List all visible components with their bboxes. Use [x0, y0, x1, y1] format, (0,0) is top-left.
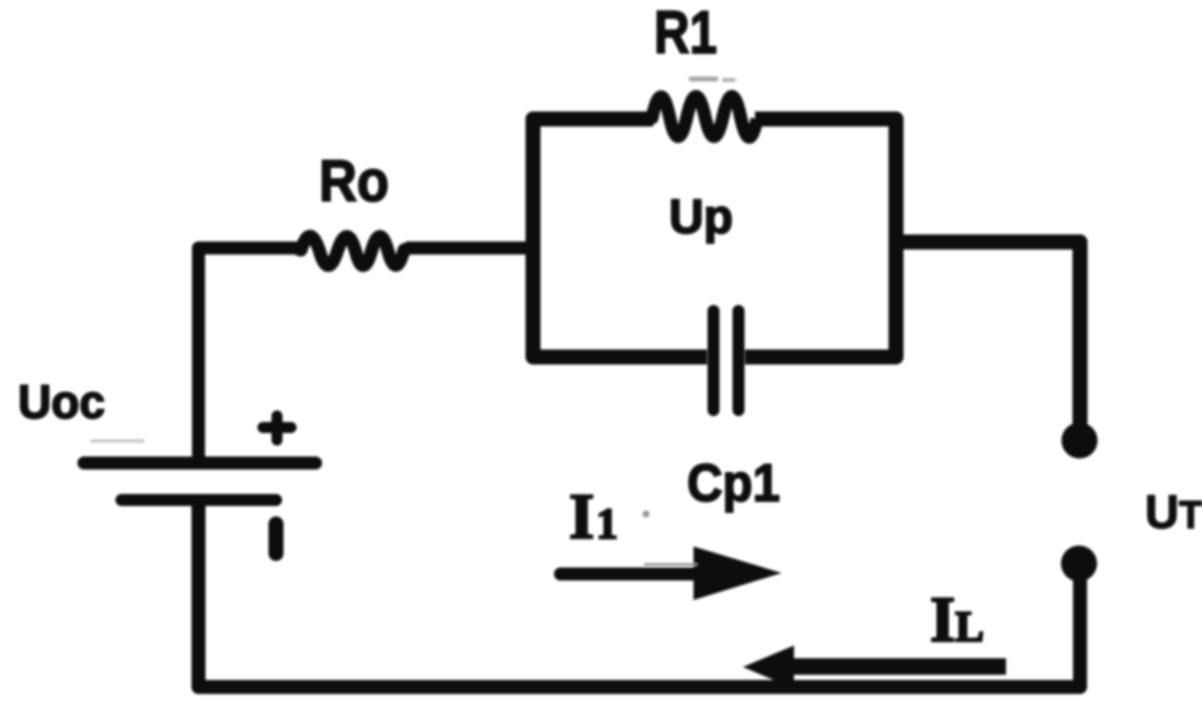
svg-text:Uoc: Uoc [18, 375, 105, 428]
svg-text:I1: I1 [569, 481, 618, 553]
current arrow I1 head [694, 547, 782, 601]
artifact ghost dash under R1 right [724, 78, 734, 82]
artifact faint line under Uoc [92, 439, 143, 443]
svg-text:R1: R1 [654, 0, 717, 66]
svg-text:UT: UT [1145, 485, 1202, 538]
node: lower output terminal dot [1061, 546, 1097, 582]
svg-text:IL: IL [930, 584, 984, 656]
wire: box right wall with top-right and bottom-right segments [745, 119, 896, 357]
wire: box left wall with top-left and bottom-left segments [533, 119, 707, 357]
capacitor Cp1 plate right [733, 311, 745, 410]
artifact ghost dash under R1 [691, 77, 716, 82]
wire: battery positive plate up to top-left corner then right to Ro [199, 248, 301, 460]
node: upper output terminal dot [1062, 423, 1098, 459]
battery plus sign [263, 416, 291, 440]
artifact speck near I1 [643, 511, 650, 518]
current arrow I1 shaft [561, 568, 701, 581]
capacitor Cp1 plate left [708, 311, 720, 410]
wire: box right to output terminal (top) [890, 242, 1080, 432]
battery minus mark [269, 524, 284, 554]
artifact thin line above I1 shaft [644, 563, 697, 566]
svg-text:Up: Up [669, 191, 733, 244]
current arrow IL head [743, 646, 794, 689]
battery Uoc negative plate (short) [122, 494, 277, 506]
svg-text:Ro: Ro [319, 149, 389, 214]
svg-text:Cp1: Cp1 [687, 454, 780, 513]
resistor R1 [648, 97, 757, 138]
resistor Ro [297, 236, 408, 265]
battery Uoc positive plate (long) [84, 457, 316, 470]
wire: lower terminal down to bottom rail [199, 502, 1081, 687]
current arrow IL shaft [788, 658, 1006, 675]
wire: Ro to RC box left [406, 242, 535, 255]
